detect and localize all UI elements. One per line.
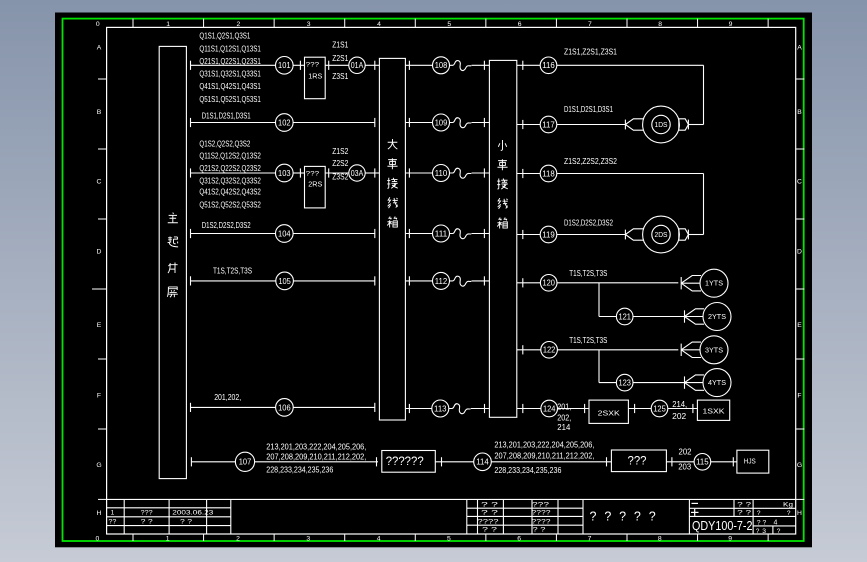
svg-text:HJS: HJS: [744, 457, 756, 466]
svg-text:125: 125: [653, 404, 666, 413]
svg-text:QDY100-7-2: QDY100-7-2: [692, 518, 753, 533]
svg-text:T1S,T2S,T3S: T1S,T2S,T3S: [569, 336, 607, 345]
svg-text:104: 104: [278, 229, 291, 238]
svg-text:D1S1,D2S1,D3S1: D1S1,D2S1,D3S1: [202, 112, 251, 121]
svg-text:?: ?: [590, 510, 597, 524]
svg-text:Z3S1: Z3S1: [332, 72, 348, 81]
svg-text:G: G: [96, 462, 101, 469]
svg-text:? ?: ? ?: [481, 501, 499, 508]
svg-text:1: 1: [166, 535, 170, 542]
svg-text:111: 111: [435, 229, 448, 238]
svg-text:?: ?: [756, 528, 760, 535]
svg-text:H: H: [797, 510, 802, 517]
svg-text:4: 4: [774, 520, 778, 527]
svg-text:1: 1: [111, 510, 115, 517]
svg-text:116: 116: [542, 61, 555, 70]
svg-text:1SXK: 1SXK: [703, 407, 725, 416]
svg-text:9: 9: [729, 21, 733, 28]
svg-text:D1S2,D2S2,D3S2: D1S2,D2S2,D3S2: [202, 221, 251, 230]
svg-text:122: 122: [543, 346, 556, 355]
svg-text:T1S,T2S,T3S: T1S,T2S,T3S: [213, 267, 252, 276]
svg-text:105: 105: [278, 277, 291, 286]
svg-text:?: ?: [777, 528, 781, 535]
svg-text:121: 121: [618, 312, 631, 321]
svg-text:Q1S1,Q2S1,Q3S1: Q1S1,Q2S1,Q3S1: [199, 32, 250, 41]
svg-text:Q41S2,Q42S2,Q43S2: Q41S2,Q42S2,Q43S2: [199, 188, 261, 197]
svg-text:2DS: 2DS: [655, 230, 668, 239]
svg-text:B: B: [97, 109, 102, 116]
svg-text:4: 4: [377, 21, 381, 28]
svg-text:G: G: [797, 462, 802, 469]
svg-text:????: ????: [532, 518, 551, 525]
svg-text:8: 8: [658, 21, 662, 28]
svg-text:01A: 01A: [351, 61, 364, 70]
svg-text:1DS: 1DS: [655, 120, 668, 129]
svg-text:9: 9: [728, 535, 732, 542]
svg-text:2: 2: [236, 535, 240, 542]
svg-text:1YTS: 1YTS: [705, 281, 723, 288]
svg-text:202,: 202,: [557, 413, 571, 422]
svg-text:Z1S1,Z2S1,Z3S1: Z1S1,Z2S1,Z3S1: [564, 48, 617, 57]
svg-text:F: F: [797, 393, 801, 400]
svg-text:112: 112: [435, 277, 448, 286]
svg-text:124: 124: [543, 404, 556, 413]
svg-text:D1S2,D2S2,D3S2: D1S2,D2S2,D3S2: [564, 218, 613, 227]
svg-text:???: ???: [141, 510, 153, 517]
svg-text:2YTS: 2YTS: [708, 314, 726, 321]
svg-text:Q51S2,Q52S2,Q53S2: Q51S2,Q52S2,Q53S2: [199, 201, 261, 210]
svg-text:115: 115: [696, 458, 709, 467]
svg-text:A: A: [97, 45, 102, 52]
svg-text:B: B: [797, 109, 802, 116]
svg-text:113: 113: [434, 404, 447, 413]
svg-text:102: 102: [278, 118, 291, 127]
svg-text:C: C: [797, 179, 802, 186]
svg-text:214: 214: [557, 423, 571, 432]
svg-text:3: 3: [762, 528, 766, 535]
svg-text:228,233,234,235,236: 228,233,234,235,236: [266, 465, 333, 474]
svg-text:4YTS: 4YTS: [708, 380, 726, 387]
svg-text:119: 119: [542, 230, 555, 239]
svg-text:??????: ??????: [386, 456, 424, 468]
svg-text:Q31S1,Q32S1,Q33S1: Q31S1,Q32S1,Q33S1: [199, 69, 261, 78]
svg-text:D: D: [97, 249, 102, 256]
svg-text:101: 101: [278, 61, 291, 70]
svg-text:C: C: [97, 179, 102, 186]
svg-text:103: 103: [278, 169, 291, 178]
svg-text:203: 203: [678, 463, 692, 472]
svg-text:?: ?: [604, 510, 611, 524]
svg-text:??: ??: [108, 519, 116, 526]
svg-text:Q11S2,Q12S2,Q13S2: Q11S2,Q12S2,Q13S2: [199, 152, 261, 161]
svg-text:?: ?: [619, 510, 626, 524]
svg-text:214,: 214,: [672, 400, 687, 409]
svg-text:? ?: ? ?: [737, 501, 752, 508]
svg-text:Q51S1,Q52S1,Q53S1: Q51S1,Q52S1,Q53S1: [199, 95, 261, 104]
svg-text:207,208,209,210,211,212,202,: 207,208,209,210,211,212,202,: [494, 452, 594, 461]
svg-text:?: ?: [787, 510, 791, 517]
svg-text:106: 106: [278, 403, 291, 412]
svg-text:T1S,T2S,T3S: T1S,T2S,T3S: [569, 269, 607, 278]
svg-text:???: ???: [306, 170, 320, 177]
svg-text:5: 5: [447, 21, 451, 28]
svg-text:Q21S1,Q22S1,Q23S1: Q21S1,Q22S1,Q23S1: [199, 57, 261, 66]
svg-text:? ?: ? ?: [482, 527, 498, 534]
svg-text:1: 1: [166, 21, 170, 28]
svg-text:? ?: ? ?: [533, 527, 547, 534]
svg-text:3YTS: 3YTS: [705, 347, 723, 354]
svg-text:118: 118: [542, 169, 555, 178]
svg-text:? ?: ? ?: [180, 519, 192, 526]
svg-text:????: ????: [532, 510, 551, 517]
svg-text:????: ????: [478, 518, 500, 525]
svg-text:202: 202: [672, 412, 687, 421]
svg-text:109: 109: [435, 118, 448, 127]
svg-text:F: F: [97, 393, 101, 400]
svg-text:110: 110: [435, 169, 448, 178]
svg-text:Z2S2: Z2S2: [332, 159, 348, 168]
svg-text:107: 107: [239, 458, 252, 467]
svg-text:202: 202: [679, 448, 693, 457]
svg-text:Q1S2,Q2S2,Q3S2: Q1S2,Q2S2,Q3S2: [199, 140, 250, 149]
svg-text:???: ???: [306, 62, 320, 69]
svg-text:Z1S2,Z2S2,Z3S2: Z1S2,Z2S2,Z3S2: [564, 157, 617, 166]
svg-text:Z1S1: Z1S1: [332, 40, 348, 49]
svg-text:2003.06.23: 2003.06.23: [172, 510, 213, 517]
svg-text:Q31S2,Q32S2,Q33S2: Q31S2,Q32S2,Q33S2: [199, 176, 261, 185]
svg-text:207,208,209,210,211,212,202,: 207,208,209,210,211,212,202,: [266, 453, 366, 462]
svg-text:6: 6: [517, 535, 521, 542]
svg-text:2SXK: 2SXK: [598, 408, 620, 417]
svg-text:? ?: ? ?: [481, 510, 499, 517]
svg-text:?: ?: [757, 510, 761, 517]
svg-text:1RS: 1RS: [308, 72, 322, 81]
svg-text:03A: 03A: [351, 169, 364, 178]
svg-text:?: ?: [649, 510, 656, 524]
svg-text:117: 117: [542, 120, 555, 129]
svg-text:Z2S1: Z2S1: [332, 54, 348, 63]
svg-text:H: H: [97, 510, 102, 517]
svg-text:8: 8: [658, 535, 662, 542]
svg-text:201,: 201,: [557, 403, 571, 412]
svg-text:201,202,: 201,202,: [214, 393, 241, 402]
svg-text:123: 123: [618, 378, 631, 387]
svg-text:E: E: [97, 322, 102, 329]
svg-text:7: 7: [588, 535, 592, 542]
svg-text:D: D: [797, 249, 802, 256]
svg-text:4: 4: [377, 535, 381, 542]
svg-text:???: ???: [628, 454, 647, 468]
svg-text:108: 108: [435, 61, 448, 70]
svg-text:?: ?: [634, 510, 641, 524]
svg-text:Z3S2: Z3S2: [332, 173, 348, 182]
svg-text:Q11S1,Q12S1,Q13S1: Q11S1,Q12S1,Q13S1: [199, 45, 261, 54]
svg-text:6: 6: [518, 21, 522, 28]
svg-text:Q41S1,Q42S1,Q43S1: Q41S1,Q42S1,Q43S1: [199, 82, 261, 91]
svg-text:0: 0: [96, 21, 100, 28]
svg-text:213,201,203,222,204,205,206,: 213,201,203,222,204,205,206,: [494, 440, 594, 449]
svg-text:? ?: ? ?: [737, 510, 752, 517]
svg-text:7: 7: [588, 21, 592, 28]
svg-text:2RS: 2RS: [308, 180, 322, 189]
svg-text:2: 2: [237, 21, 241, 28]
svg-text:Z1S2: Z1S2: [332, 147, 348, 156]
svg-text:5: 5: [447, 535, 451, 542]
svg-text:3: 3: [307, 21, 311, 28]
svg-text:120: 120: [542, 279, 555, 288]
svg-text:? ?: ? ?: [141, 519, 153, 526]
svg-text:Kg: Kg: [783, 501, 793, 508]
svg-text:? ?: ? ?: [757, 519, 767, 526]
svg-text:114: 114: [476, 458, 489, 467]
svg-text:???: ???: [532, 501, 550, 508]
svg-text:A: A: [797, 45, 802, 52]
svg-text:0: 0: [96, 535, 100, 542]
svg-text:213,201,203,222,204,205,206,: 213,201,203,222,204,205,206,: [266, 443, 366, 452]
svg-text:D1S1,D2S1,D3S1: D1S1,D2S1,D3S1: [564, 105, 613, 114]
svg-text:Q21S2,Q22S2,Q23S2: Q21S2,Q22S2,Q23S2: [199, 164, 261, 173]
svg-text:E: E: [797, 322, 802, 329]
svg-text:3: 3: [306, 535, 310, 542]
svg-text:228,233,234,235,236: 228,233,234,235,236: [494, 466, 561, 475]
